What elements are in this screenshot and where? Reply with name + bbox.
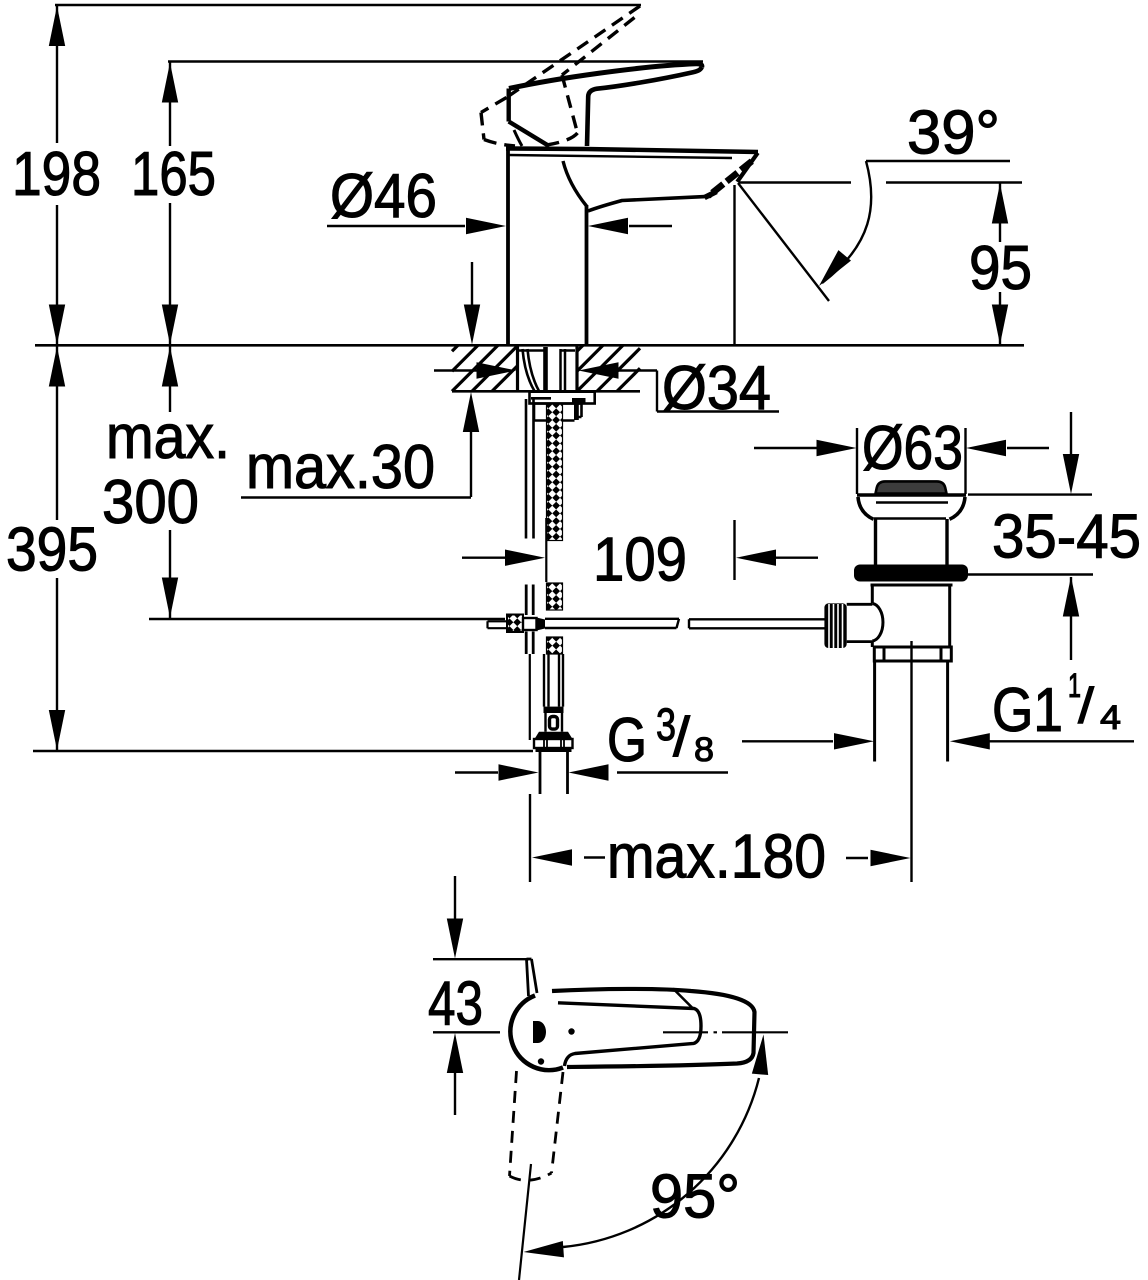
G3/8 connection nut <box>534 732 573 752</box>
pull rod vertical at joint <box>526 585 533 655</box>
faucet lever left edge <box>507 89 511 122</box>
dimension 198 vertical line with arrows <box>49 5 65 345</box>
pull rod lower thin line <box>529 654 531 740</box>
drain plug cap <box>876 481 947 493</box>
dimension 165 vertical line with arrows <box>162 62 178 346</box>
handle dot 2 <box>538 1058 544 1064</box>
dimension 395 vertical line with arrows <box>33 346 533 751</box>
faucet lever pivot arc <box>514 130 522 146</box>
drain joint nut <box>874 647 951 661</box>
handle top view lever tip blade <box>527 959 538 996</box>
drain knurled knob <box>824 603 846 648</box>
dimension max.180 with arrows <box>530 641 912 882</box>
faucet shank right wall <box>575 346 578 391</box>
handle logo mark <box>533 1021 546 1043</box>
dimension Ø34 with arrows and leader box <box>434 362 779 411</box>
svg-text:35-45: 35-45 <box>992 503 1141 572</box>
faucet shank inner top lines <box>519 349 575 351</box>
faucet shank left wall <box>516 346 519 391</box>
svg-text:Ø63: Ø63 <box>862 414 963 483</box>
supply hose tube <box>544 654 563 707</box>
horizontal pull rod left segment <box>545 619 679 628</box>
dimension 95 reference lines <box>739 161 1022 183</box>
svg-text:43: 43 <box>428 970 483 1039</box>
flexible hose upper section <box>547 404 563 541</box>
svg-text:198: 198 <box>12 140 101 209</box>
dimension 165 top reference line <box>168 60 703 63</box>
95 degree arc with arrows <box>523 1034 772 1260</box>
pull rod tee box <box>523 618 537 630</box>
faucet spout underside <box>588 192 715 212</box>
svg-text:Ø46: Ø46 <box>330 162 437 231</box>
svg-text:8: 8 <box>694 731 714 769</box>
svg-text:95°: 95° <box>650 1163 740 1232</box>
dimension G3/8 with arrows <box>455 764 728 780</box>
faucet centerline extension <box>545 518 547 582</box>
svg-text:4: 4 <box>1100 699 1121 737</box>
dimension max.300 vertical line with arrows <box>149 346 505 619</box>
flexible hose lower block <box>547 637 563 654</box>
countertop bottom line <box>452 390 640 393</box>
mounting nut <box>534 404 582 421</box>
svg-text:/: / <box>1078 678 1094 734</box>
faucet aerator band <box>710 161 752 194</box>
handle rotated dashed outline <box>510 1071 564 1180</box>
faucet spout tip face <box>737 153 758 182</box>
faucet shank center rod <box>543 347 548 391</box>
faucet body right edge <box>585 205 589 345</box>
faucet hose curves in shank <box>523 349 540 391</box>
mounting washer plate <box>530 392 595 404</box>
handle rotated axis line <box>519 1164 531 1280</box>
drain neck walls <box>876 519 948 565</box>
svg-text:109: 109 <box>593 526 687 595</box>
drain body below seal <box>871 585 953 647</box>
supply hose crimp band <box>544 707 564 713</box>
pull rod tee block <box>507 615 523 633</box>
svg-text:39°: 39° <box>907 99 1000 168</box>
label G 3/8 <box>607 699 714 775</box>
handle top view round cap <box>510 996 563 1071</box>
dimension 198 top reference line <box>55 4 641 7</box>
pull rod upper tube <box>526 399 534 539</box>
faucet shank inner tube <box>561 349 566 391</box>
countertop line <box>35 344 1024 347</box>
dimension 35-45 arrows <box>1063 412 1079 660</box>
dimension 43 reference lines <box>433 959 529 1032</box>
pull rod left stub <box>488 621 508 628</box>
drain tee opening curve <box>872 604 883 642</box>
flexible hose middle section <box>547 583 563 610</box>
drain knob collar <box>847 604 873 641</box>
supply hose fitting <box>546 713 563 732</box>
countertop hatching left <box>452 345 518 391</box>
drain centerline <box>911 641 913 880</box>
svg-text:300: 300 <box>102 468 199 537</box>
drain flange top <box>857 493 966 497</box>
svg-text:G1: G1 <box>992 676 1063 745</box>
svg-text:165: 165 <box>131 140 216 209</box>
dimension G1 1/4 with arrows <box>742 733 1134 749</box>
handle top view step tick <box>673 989 693 1009</box>
39 degree arc with arrow <box>813 161 872 291</box>
faucet top cap lower line <box>509 155 732 158</box>
drain funnel bottom line <box>874 517 946 519</box>
svg-text:G: G <box>607 706 647 775</box>
faucet body left edge <box>506 149 510 345</box>
handle centerline dash-dot <box>663 1031 788 1033</box>
handle dot 1 <box>568 1028 574 1034</box>
dimension 109 with arrows <box>462 520 818 580</box>
dimension max.30 arrows <box>241 262 480 498</box>
svg-text:max.: max. <box>106 403 230 472</box>
svg-text:max.180: max.180 <box>607 823 826 892</box>
39 degree angle line from spout <box>738 183 829 301</box>
faucet lever top edge <box>509 64 702 89</box>
faucet spout outlet end <box>705 192 717 198</box>
spout tip vertical extension line <box>733 185 735 345</box>
svg-text:/: / <box>673 705 690 768</box>
drain flange inner line <box>876 501 948 503</box>
faucet top cap <box>506 149 758 153</box>
drain flange sides <box>858 497 965 519</box>
dimension Ø63 with arrows <box>754 428 1049 494</box>
svg-text:Ø34: Ø34 <box>662 354 771 423</box>
label G1 1/4 <box>992 667 1121 745</box>
dimension 95 vertical line with arrows <box>992 183 1008 346</box>
handle top view barrel outline <box>552 989 755 1067</box>
horizontal pull rod right segment <box>689 619 825 628</box>
dimension Ø46 with arrows <box>327 218 672 234</box>
faucet lever bottom edge <box>587 67 702 146</box>
supply pipe below nut <box>540 752 568 794</box>
svg-text:395: 395 <box>6 516 98 585</box>
faucet lever base bottom <box>509 122 549 147</box>
pull rod tee wedge <box>537 618 546 631</box>
drain tailpipe walls <box>875 661 948 762</box>
svg-text:max.30: max.30 <box>246 433 435 502</box>
dimension 43 arrows <box>447 876 463 1115</box>
drain seal ring <box>854 565 968 582</box>
countertop hatching right <box>577 345 640 391</box>
faucet lever raised dashed outline <box>481 6 640 146</box>
faucet spout under-curve <box>563 161 587 206</box>
handle top view inner blade <box>558 1003 701 1066</box>
dimension 35-45 reference lines <box>964 495 1093 575</box>
svg-text:95: 95 <box>969 234 1032 303</box>
